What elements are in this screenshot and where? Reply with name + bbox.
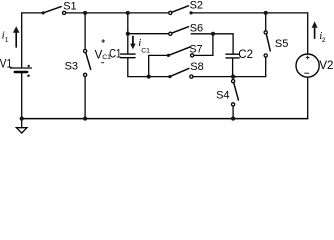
svg-text:S5: S5 — [275, 38, 288, 50]
switch S1 — [43, 7, 61, 13]
svg-text:S3: S3 — [65, 61, 78, 73]
svg-text:S6: S6 — [190, 22, 203, 34]
svg-text:C1: C1 — [102, 54, 111, 61]
switch S6 — [169, 32, 172, 35]
svg-text:V2: V2 — [319, 60, 333, 72]
node C1 branch — [127, 13, 129, 34]
wire S8 row — [149, 76, 169, 78]
junction dot G — [231, 75, 235, 79]
capacitor C2 — [232, 34, 234, 54]
plus sign V2 — [306, 56, 310, 60]
junction dot I — [231, 117, 235, 121]
wire top mid — [66, 12, 169, 14]
wire S7 row — [149, 55, 167, 76]
switch S4 — [232, 77, 234, 80]
junction dot D — [126, 32, 130, 36]
svg-text:S8: S8 — [190, 61, 203, 73]
arrow iC1 — [132, 37, 134, 45]
wire bottom rail — [22, 118, 308, 120]
switch S7 pivot dot — [167, 54, 170, 57]
battery minus dot — [27, 75, 30, 78]
switch S1 pivot dot — [42, 11, 45, 14]
battery plus dot — [28, 65, 30, 67]
svg-text:2: 2 — [322, 37, 326, 44]
left rail — [21, 13, 23, 67]
arrow i2 — [314, 27, 316, 38]
svg-text:V1: V1 — [0, 59, 12, 71]
switch S5 — [265, 13, 267, 31]
svg-text:C2: C2 — [238, 49, 253, 61]
minus sign VC1 — [101, 62, 104, 64]
node S3 branch — [84, 13, 86, 49]
svg-text:S2: S2 — [190, 0, 203, 11]
svg-text:S4: S4 — [216, 90, 229, 102]
capacitor C1 — [127, 34, 129, 54]
arrowhead i2 — [312, 21, 318, 27]
plus sign VC1 — [101, 39, 105, 43]
junction dot B — [126, 11, 130, 15]
wire S6 row — [128, 33, 169, 35]
svg-text:C1: C1 — [141, 47, 150, 54]
junction dot J — [20, 117, 24, 121]
arrowhead iC1 — [130, 44, 136, 50]
junction dot E — [211, 32, 215, 36]
minus sign V2 — [304, 72, 309, 74]
switch S8 — [170, 68, 189, 76]
junction dot H — [83, 117, 87, 121]
junction dot F — [147, 75, 151, 79]
wire top-left — [22, 12, 44, 14]
svg-text:1: 1 — [5, 37, 9, 44]
switch S3 — [84, 49, 87, 52]
ground — [21, 119, 23, 128]
junction dot C — [264, 11, 268, 15]
svg-text:S7: S7 — [189, 44, 202, 56]
switch S2 right dot — [190, 11, 193, 14]
svg-text:C1: C1 — [109, 48, 121, 60]
arrowhead i1 — [13, 26, 20, 33]
source V2 — [307, 13, 309, 54]
junction dot A — [83, 11, 87, 15]
wire top right — [191, 12, 308, 14]
switch S8 pivot dot — [168, 75, 171, 78]
arrow i1 — [15, 32, 17, 48]
svg-text:S1: S1 — [63, 1, 76, 13]
switch S7 — [168, 47, 189, 55]
switch S2 — [169, 11, 172, 14]
battery V1 — [10, 67, 31, 69]
